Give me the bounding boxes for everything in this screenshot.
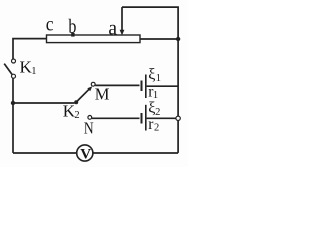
svg-text:b: b (68, 15, 76, 37)
svg-text:1: 1 (31, 66, 36, 77)
svg-text:2: 2 (74, 110, 79, 121)
svg-text:N: N (84, 120, 94, 137)
svg-text:V: V (80, 147, 91, 163)
svg-text:a: a (108, 17, 117, 40)
svg-text:c: c (46, 14, 54, 36)
svg-text:1: 1 (156, 73, 161, 84)
svg-text:M: M (95, 85, 110, 104)
svg-text:2: 2 (155, 107, 160, 118)
svg-text:2: 2 (154, 122, 159, 133)
svg-text:ξ: ξ (148, 66, 155, 83)
